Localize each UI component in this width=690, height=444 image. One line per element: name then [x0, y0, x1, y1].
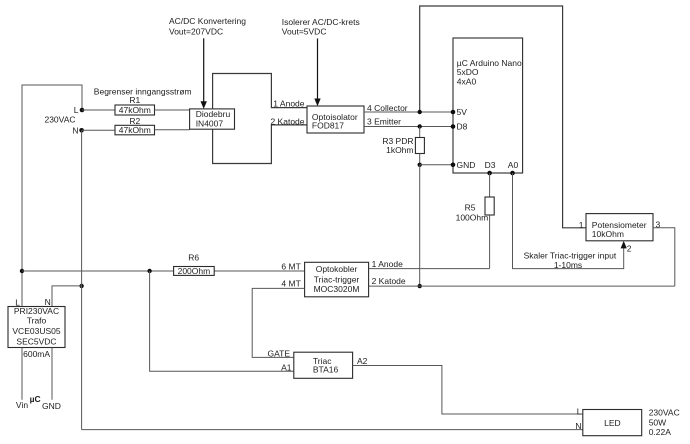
wire: R1 to diode bridge — [155, 109, 190, 111]
svg-text:2 Katode: 2 Katode — [372, 276, 406, 286]
resistor R2 47kOhm — [115, 116, 155, 135]
wire: trafo GND lead — [51, 348, 53, 400]
node: R3/GND junction — [418, 163, 422, 167]
wire: R2 to diode bridge — [155, 129, 190, 131]
svg-text:230VAC: 230VAC — [44, 114, 75, 124]
pin label: GND (trafo) — [42, 401, 61, 411]
svg-text:50W: 50W — [649, 417, 666, 427]
wire: optocoupler anode line to R5 — [369, 268, 490, 270]
pin label: N (LED) — [575, 421, 581, 431]
pin label: GATE — [267, 348, 290, 358]
svg-text:4 Collector: 4 Collector — [367, 103, 408, 113]
svg-text:4xA0: 4xA0 — [457, 77, 477, 87]
svg-text:600mA: 600mA — [23, 349, 50, 359]
wire: triac A2 to LED L — [353, 366, 583, 415]
svg-text:R5: R5 — [465, 203, 476, 213]
label: AC/DC Konvertering annotation — [169, 16, 246, 36]
svg-text:5V: 5V — [457, 107, 468, 117]
wire: 5V loop over top to potentiometer pin1 — [420, 6, 586, 228]
svg-text:100Ohm: 100Ohm — [456, 212, 489, 222]
arrow to optoisolator — [314, 39, 320, 107]
svg-text:GATE: GATE — [267, 348, 290, 358]
wire: N to R2 — [82, 129, 115, 131]
svg-text:47kOhm: 47kOhm — [119, 105, 151, 115]
svg-text:D3: D3 — [485, 160, 496, 170]
pin GND — [451, 160, 476, 170]
svg-text:1 Anode: 1 Anode — [372, 259, 403, 269]
svg-text:Vout=207VDC: Vout=207VDC — [169, 27, 223, 37]
svg-text:230VAC: 230VAC — [649, 408, 680, 418]
svg-text:4 MT: 4 MT — [281, 279, 300, 289]
node: junction on left rail — [20, 269, 24, 273]
node: L terminal — [74, 105, 85, 115]
node: N branch to trafo — [79, 284, 83, 288]
svg-text:3 Emitter: 3 Emitter — [367, 117, 401, 127]
transformer T1 Trafo — [8, 297, 65, 348]
wire: A0 to potentiometer pin2 — [513, 173, 627, 269]
wire: N branch into trafo — [52, 286, 82, 307]
label: uC supply — [30, 394, 41, 404]
wire: L up-over-left loop to trafo — [22, 85, 82, 307]
wire: horizontal rail y271 left of R6 — [22, 270, 174, 272]
svg-text:6 MT: 6 MT — [281, 262, 300, 272]
pin label: 2 Katode (optoisolator) — [270, 116, 304, 126]
wire: L to R1 — [82, 109, 115, 111]
resistor R6 200Ohm — [174, 252, 215, 276]
svg-text:LED: LED — [604, 418, 621, 428]
svg-text:1kOhm: 1kOhm — [386, 145, 413, 155]
label: Skaler Triac-trigger input annotation — [524, 251, 617, 270]
resistor R1 47kOhm — [115, 95, 155, 115]
wire: rail junction down to triac A1 — [150, 271, 294, 371]
microcontroller U2 Arduino Nano — [453, 38, 523, 173]
svg-text:L: L — [577, 406, 582, 416]
node: N terminal — [72, 125, 84, 135]
node: emitter/R3 tap — [418, 124, 422, 128]
pin label: 1 (potentiometer) — [579, 220, 584, 230]
wire: katode rail — [369, 285, 675, 287]
wire: potentiometer pin3 down to katode rail — [653, 228, 675, 286]
node: GND drop on katode rail — [418, 284, 422, 288]
pin label: 6 MT — [281, 262, 300, 272]
svg-text:Begrenser inngangsstrøm: Begrenser inngangsstrøm — [94, 87, 192, 97]
svg-text:Vin: Vin — [16, 400, 28, 410]
svg-text:VCE03US05: VCE03US05 — [12, 326, 60, 336]
potentiometer RV1 10kOhm — [586, 214, 653, 241]
label: 230VAC source — [44, 114, 75, 124]
label: LED ratings — [649, 408, 680, 438]
pin D3 — [485, 160, 496, 175]
svg-text:1-10ms: 1-10ms — [554, 260, 582, 270]
svg-text:47kOhm: 47kOhm — [119, 125, 151, 135]
svg-text:R1: R1 — [129, 95, 140, 105]
wire: emitter to D8 — [364, 126, 453, 128]
svg-text:Vout=5VDC: Vout=5VDC — [282, 27, 327, 37]
lamp LED 230VAC 50W — [583, 410, 642, 436]
label: Isolerer AC/DC-krets annotation — [282, 17, 360, 37]
pin label: 4 MT — [281, 279, 300, 289]
svg-text:A2: A2 — [357, 356, 368, 366]
svg-text:N: N — [72, 125, 78, 135]
wire: 4MT to triac gate — [252, 288, 304, 357]
wire: collector to 5V — [364, 111, 453, 113]
svg-text:N: N — [575, 421, 581, 431]
node: collector/5V tap — [418, 110, 422, 114]
svg-text:R6: R6 — [188, 252, 199, 262]
pin D8 — [451, 122, 468, 132]
label: Begrenser inngangsstrom annotation — [94, 87, 192, 97]
pin label: 3 (potentiometer) — [656, 220, 661, 230]
optocoupler U3 Optokobler MOC3020M — [305, 262, 369, 297]
pin label: 1 Anode (optocoupler) — [372, 259, 403, 269]
svg-text:2: 2 — [627, 244, 632, 254]
pin label: A1 — [281, 363, 292, 373]
svg-text:A1: A1 — [281, 363, 292, 373]
wire: bridge top output loop to anode — [213, 74, 307, 109]
pin label: L (LED) — [577, 406, 582, 416]
wire: rail R6 to optocoupler 6MT — [214, 270, 304, 272]
svg-text:FOD817: FOD817 — [312, 121, 344, 131]
pin label: A2 — [357, 356, 368, 366]
wire: trafo Vin lead — [21, 348, 23, 400]
pin label: 1 Anode (optoisolator) — [273, 99, 304, 109]
svg-text:Optokobler: Optokobler — [316, 264, 358, 274]
svg-text:MOC3020M: MOC3020M — [314, 284, 360, 294]
svg-text:2 Katode: 2 Katode — [270, 116, 304, 126]
svg-text:GND: GND — [42, 401, 61, 411]
svg-text:L: L — [74, 105, 79, 115]
wire: GND drop to katode rail — [419, 165, 421, 286]
wire: GND line to arduino — [420, 164, 453, 166]
svg-text:SEC5VDC: SEC5VDC — [16, 336, 56, 346]
wire: N vertical to bottom rail — [81, 130, 83, 429]
svg-text:10kOhm: 10kOhm — [592, 229, 624, 239]
svg-text:1 Anode: 1 Anode — [273, 99, 304, 109]
resistor R5 100Ohm — [456, 173, 495, 269]
resistor R3 PDR 1kOhm — [382, 127, 424, 165]
svg-text:GND: GND — [457, 160, 476, 170]
pin label: 2 (potentiometer wiper) — [627, 244, 632, 254]
wire: bridge bottom output loop to katode — [213, 125, 307, 164]
svg-text:Trafo: Trafo — [27, 316, 47, 326]
diode bridge D1 Diodebru IN4007 — [190, 109, 235, 129]
svg-text:BTA16: BTA16 — [313, 365, 339, 375]
pin label: 2 Katode (optocoupler) — [372, 276, 406, 286]
svg-text:Isolerer AC/DC-krets: Isolerer AC/DC-krets — [282, 17, 360, 27]
pin label: 3 Emitter — [367, 117, 401, 127]
pin 5V — [451, 107, 468, 117]
svg-text:0.22A: 0.22A — [649, 427, 672, 437]
svg-text:µC: µC — [30, 394, 41, 404]
node: junction rail to A1 branch — [147, 269, 151, 273]
svg-text:Diodebru: Diodebru — [196, 109, 231, 119]
svg-text:1: 1 — [579, 220, 584, 230]
pin label: Vin — [16, 400, 28, 410]
label: 600mA rating — [23, 349, 50, 359]
svg-text:D8: D8 — [457, 122, 468, 132]
svg-text:A0: A0 — [508, 160, 519, 170]
triac Q1 BTA16 — [294, 352, 353, 378]
arrow to diode bridge — [201, 38, 207, 109]
svg-text:IN4007: IN4007 — [196, 118, 224, 128]
svg-text:Triac-trigger: Triac-trigger — [314, 274, 360, 284]
pin A0 — [508, 160, 519, 175]
svg-text:AC/DC Konvertering: AC/DC Konvertering — [169, 16, 246, 26]
pin label: 4 Collector — [367, 103, 408, 113]
optoisolator U1 FOD817 — [307, 106, 364, 133]
svg-text:200Ohm: 200Ohm — [178, 266, 211, 276]
wire: bottom rail to LED N — [82, 429, 583, 431]
